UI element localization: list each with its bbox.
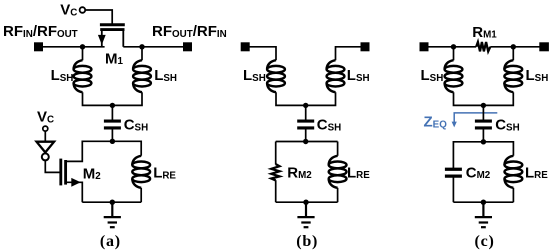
wire RM2 top stub (b) xyxy=(275,142,277,165)
port square left (c) xyxy=(420,42,429,51)
capacitor CSH (b) xyxy=(297,121,314,128)
ground (a) xyxy=(104,202,121,227)
wire CSH bottom stub (a) xyxy=(111,129,113,141)
ZEQ annotation arrowhead (blue) xyxy=(452,122,457,128)
inductor LSH (c-left) xyxy=(445,60,463,92)
node dot below CSH (a) xyxy=(110,139,115,144)
resistor RM2 xyxy=(271,164,279,180)
svg-text:(a): (a) xyxy=(100,233,121,250)
transistor M2 gate bar xyxy=(59,159,62,186)
wire M2 drain to node (a) xyxy=(66,141,113,161)
capacitor CSH (c) xyxy=(475,121,492,128)
inverter triangle xyxy=(37,142,55,153)
transistor M1 channel bar xyxy=(100,28,124,31)
node dot right (c) xyxy=(511,44,516,49)
wire bottom rail (c) xyxy=(453,201,513,203)
node dot above CSH (b) xyxy=(303,103,308,108)
ground (c) xyxy=(475,202,492,227)
wire right L_SH stub (a) xyxy=(141,47,143,61)
wire inverter to M2 gate xyxy=(45,160,59,172)
wire left L_SH stub (c) xyxy=(453,47,455,61)
svg-text:(b): (b) xyxy=(296,233,318,250)
inductor LSH (a-right) xyxy=(133,60,151,92)
port square right (a) xyxy=(183,42,192,51)
port square right (b) xyxy=(361,42,370,51)
wire CSH bottom stub (c) xyxy=(482,129,484,141)
terminal circle VC lower xyxy=(43,126,48,131)
node dot right rail (a) xyxy=(139,44,144,49)
node dot ground (a) xyxy=(110,200,115,205)
wire node to L_RE (b) xyxy=(337,142,339,156)
transistor M1 source leg with arrow xyxy=(101,31,103,47)
wire left L_SH stub (a) xyxy=(82,47,84,61)
inductor LRE (a) xyxy=(132,156,150,188)
wire CSH top stub (c) xyxy=(482,105,484,119)
wire RM2 bottom stub (b) xyxy=(275,180,277,202)
wire coil bottoms to center node (c) xyxy=(454,92,514,105)
wire coil bottoms to center node (b) xyxy=(276,92,336,105)
wire C_M2 bottom stub (c) xyxy=(452,177,454,202)
inductor LSH (b-right) xyxy=(327,60,345,92)
node dot above CSH (a) xyxy=(110,103,115,108)
port square right (c) xyxy=(539,42,549,51)
port square left (b) xyxy=(241,42,250,51)
wire top rail right segment (c) xyxy=(490,46,544,48)
wire node to C_M2 (c) xyxy=(453,142,483,168)
transistor M1 drain leg xyxy=(122,31,124,47)
inverter bubble xyxy=(42,153,49,160)
ground (b) xyxy=(297,202,314,227)
port square left (a) xyxy=(34,42,43,51)
wire bottom rail (a) xyxy=(82,201,141,203)
inductor LSH (b-left) xyxy=(267,60,285,92)
wire left port to L_SH (b) xyxy=(245,47,276,61)
svg-text:(c): (c) xyxy=(475,233,495,250)
wire right rail (a) xyxy=(123,46,187,48)
wire top rail left segment (c) xyxy=(424,46,476,48)
wire L_RE bottom (a) xyxy=(140,188,142,202)
wire right L_SH stub (c) xyxy=(512,47,514,61)
resistor RM1 xyxy=(476,42,490,51)
wire CSH top stub (a) xyxy=(111,105,113,119)
ZEQ annotation line (blue) xyxy=(454,113,497,123)
node dot below CSH (c) xyxy=(481,139,486,144)
wire CSH bottom stub (b) xyxy=(305,129,307,141)
wire M2 source to bottom rail (a) xyxy=(66,182,83,202)
node dot left (c) xyxy=(451,44,456,49)
wire L_RE bottom (c) xyxy=(512,188,514,202)
inductor LRE (c) xyxy=(505,156,523,188)
wire node to L_RE (a) xyxy=(112,141,141,156)
wire L_RE bottom (b) xyxy=(337,188,339,202)
transistor M1 gate bar xyxy=(100,23,125,26)
terminal circle VC top xyxy=(80,7,86,13)
transistor M2 channel bar xyxy=(64,160,67,185)
node dot above CSH (c) xyxy=(481,103,486,108)
transistor M2 source arrow xyxy=(71,178,80,187)
wire CSH top stub (b) xyxy=(305,105,307,119)
wire lower loop top (b) xyxy=(276,141,338,143)
wire bottom rail (b) xyxy=(276,201,338,203)
inductor LSH (c-right) xyxy=(504,60,522,92)
capacitor CM2 xyxy=(445,169,462,176)
node dot left rail (a) xyxy=(80,44,85,49)
node dot ground (b) xyxy=(303,200,308,205)
wire coil bottoms to center node (a) xyxy=(83,92,143,105)
node dot below CSH (b) xyxy=(303,139,308,144)
node dot ground (c) xyxy=(481,200,486,205)
wire VC to M1 gate xyxy=(85,10,112,24)
wire left rail (a) xyxy=(39,46,105,48)
wire node to L_RE (c) xyxy=(483,142,513,156)
wire VC circle to inverter xyxy=(44,131,46,142)
capacitor CSH (a) xyxy=(104,121,121,128)
wire right port to L_SH (b) xyxy=(336,47,366,61)
inductor LRE (b) xyxy=(329,156,347,188)
inductor LSH (a-left) xyxy=(74,60,92,92)
